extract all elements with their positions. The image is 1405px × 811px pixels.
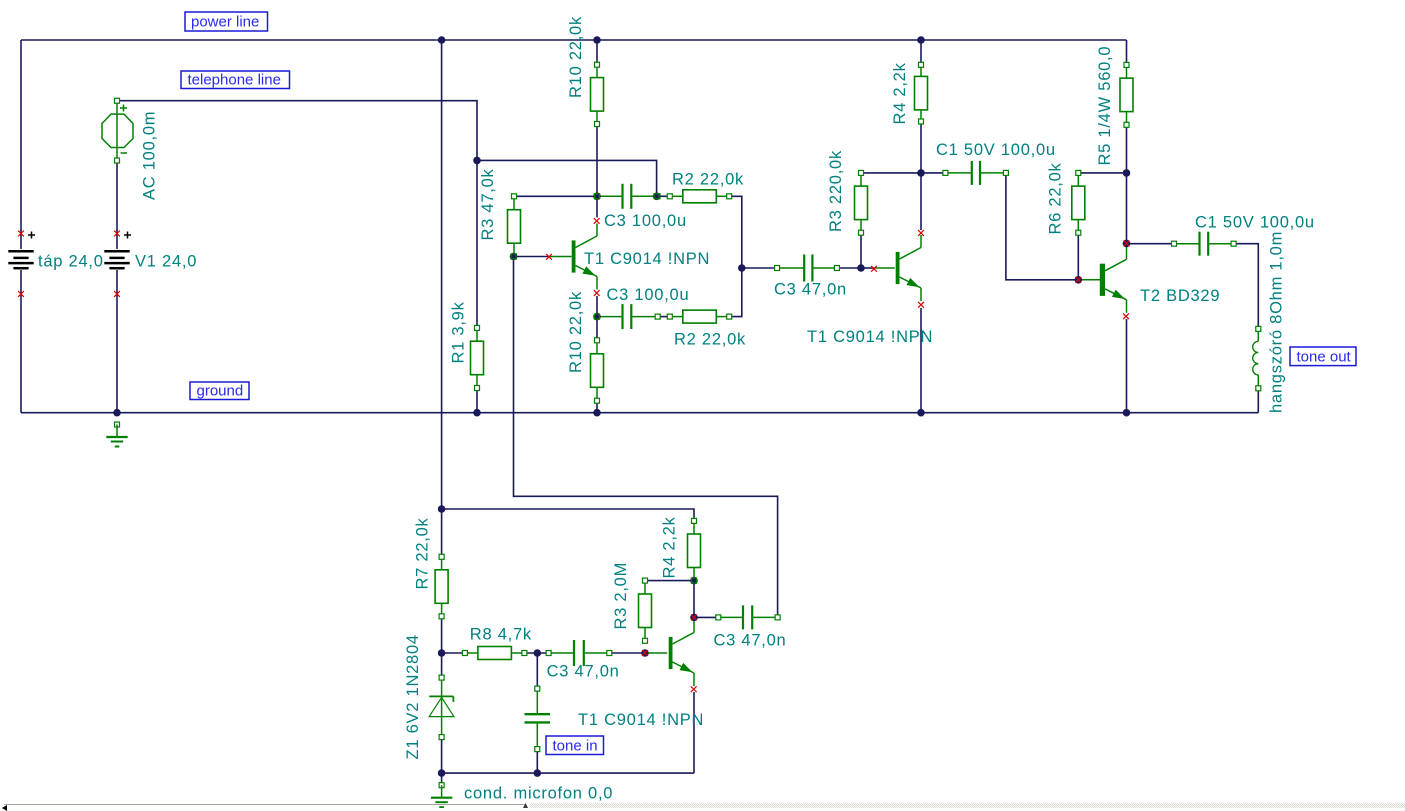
wire collector node to feedback C3 [694, 616, 718, 618]
resistor R1 3,9k [471, 325, 484, 390]
svg-text:power line: power line [191, 13, 259, 30]
svg-text:C1 50V 100,0u: C1 50V 100,0u [1195, 214, 1315, 232]
ground symbol (main) [106, 422, 127, 447]
svg-text:R2 22,0k: R2 22,0k [672, 171, 744, 189]
wire R6 top to R5 rail [1078, 172, 1126, 174]
svg-text:R10 22,0k: R10 22,0k [567, 16, 585, 98]
wire C1 to T2 base [1006, 173, 1078, 280]
zener diode Z1 6V2 1N2804 [429, 675, 454, 740]
wire R4 top pin to power line [920, 40, 922, 65]
wire R10 bottom to node [596, 124, 598, 196]
wire R3 to C3 node [514, 195, 597, 197]
wire T1 emitter to ground [920, 308, 922, 413]
wire mic top [536, 653, 538, 689]
junction [438, 36, 446, 44]
junction [641, 649, 649, 657]
wire bottom T1 emitter down [693, 692, 695, 773]
svg-text:tone in: tone in [553, 737, 598, 754]
transistor T1 C9014 input stage [669, 620, 694, 686]
svg-text:T1 C9014 !NPN: T1 C9014 !NPN [807, 328, 933, 346]
junction [690, 614, 698, 622]
capacitor C3 47,0n input [546, 640, 612, 666]
svg-text:R2 22,0k: R2 22,0k [674, 331, 746, 349]
wire R3 220k to base node [860, 233, 862, 268]
wire node to zener [441, 653, 443, 678]
pin marker x [691, 615, 697, 621]
wire R7 to mic node [441, 616, 443, 653]
svg-text:telephone line: telephone line [188, 71, 281, 88]
svg-text:R7 22,0k: R7 22,0k [414, 517, 432, 589]
pin marker x [1123, 313, 1129, 319]
pin marker x [642, 650, 648, 656]
wire R10 top pin to power line [596, 40, 598, 65]
junction [1123, 409, 1131, 417]
pin marker x [1124, 241, 1130, 247]
capacitor C3 47,0n coupling [775, 255, 840, 282]
pin square [595, 314, 600, 319]
net label power line [185, 12, 268, 31]
wire speaker to ground [1257, 391, 1259, 413]
pin marker x [546, 254, 552, 260]
wire power line rail [21, 39, 1127, 41]
wire C3 input to base node [609, 652, 645, 654]
speaker hangszoro (inductor) [1253, 326, 1261, 390]
junction [473, 157, 481, 165]
wire node to C1 coupling [921, 172, 945, 174]
wire T1 collector stub 2 [920, 173, 922, 230]
junction [917, 169, 925, 177]
wire input T1 base green [645, 652, 667, 654]
resistor R4 2,2k bottom [688, 518, 701, 583]
junction [738, 264, 746, 272]
transistor T1 C9014 stage1 [572, 224, 597, 290]
svg-text:T1 C9014 !NPN: T1 C9014 !NPN [578, 711, 704, 729]
pin marker x [1075, 277, 1081, 283]
wire C3/R2 link [657, 195, 670, 197]
wire C3/R2 lower link [658, 316, 670, 318]
capacitor C3 47,0n feedback [716, 605, 780, 629]
svg-text:C1 50V 100,0u: C1 50V 100,0u [936, 141, 1056, 159]
resistor R3 47,0k [508, 194, 521, 259]
pin marker x [594, 290, 600, 296]
wire AC source to battery V1 [116, 161, 118, 413]
svg-text:C3 100,0u: C3 100,0u [604, 212, 687, 230]
pin marker x [18, 291, 24, 297]
capacitor C1 50V 100,0u output [1172, 232, 1237, 256]
svg-text:T1 C9014 !NPN: T1 C9014 !NPN [584, 250, 710, 268]
wire R6 bottom to base node [1077, 233, 1079, 280]
pin marker x [691, 686, 697, 692]
transistor T1 C9014 stage2 [896, 235, 921, 301]
junction [593, 36, 601, 44]
wire node A to bottom R4 [442, 509, 694, 521]
svg-text:R4 2,2k: R4 2,2k [891, 62, 909, 124]
svg-text:AC 100,0m: AC 100,0m [141, 111, 159, 200]
svg-text:R5 1/4W 560,0: R5 1/4W 560,0 [1096, 46, 1114, 166]
pin marker x [594, 218, 600, 224]
wire R5 bottom to collector node [1126, 125, 1128, 244]
junction [857, 264, 865, 272]
wire R5 top pin to power line [1126, 40, 1128, 65]
svg-text:C3 47,0n: C3 47,0n [547, 663, 620, 681]
svg-text:R3 220,0k: R3 220,0k [827, 150, 845, 232]
pin marker x [18, 231, 24, 237]
wire zener to bottom rail [441, 737, 443, 783]
resistor R8 4,7k [462, 647, 527, 660]
junction [1075, 276, 1083, 284]
wire T2 base [1078, 279, 1100, 281]
resistor R3 220,0k [855, 170, 868, 235]
resistor R10 22,0k top [591, 62, 604, 126]
svg-text:R4 2,2k: R4 2,2k [661, 516, 679, 578]
pin square [511, 254, 516, 259]
scrollbar thumb top edge [4, 804, 526, 805]
junction [534, 649, 542, 657]
svg-text:C3 47,0n: C3 47,0n [714, 632, 787, 650]
pin marker x [918, 302, 924, 308]
svg-text:tone out: tone out [1297, 348, 1352, 365]
svg-text:V1 24,0: V1 24,0 [135, 253, 197, 271]
capacitor C3 100,0u top [595, 184, 661, 209]
junction [653, 193, 661, 201]
scrollbar thumb end [523, 803, 528, 808]
wire R10 lower links [596, 317, 598, 413]
junction [593, 193, 601, 201]
junction [1123, 169, 1131, 177]
junction [438, 649, 446, 657]
net label ground [190, 382, 249, 400]
resistor R4 2,2k top [915, 62, 928, 124]
wire T1 stage2 base green [874, 267, 895, 269]
resistor R7 22,0k [435, 554, 448, 619]
svg-text:R8 4,7k: R8 4,7k [470, 626, 532, 644]
battery V1 24,0 [104, 232, 131, 269]
junction [510, 253, 518, 261]
net label telephone line [181, 71, 290, 89]
wire R3 220k top to collector rail [861, 172, 921, 174]
wire ground rail [21, 412, 1258, 414]
wire lower R2 to corner [729, 268, 742, 317]
wire R3 node down to bottom amp [514, 257, 778, 618]
wire node A to R7 [441, 509, 443, 557]
scrollbar track dither [530, 803, 1405, 808]
wire output C1 to speaker [1234, 244, 1259, 329]
svg-text:cond. microfon 0,0: cond. microfon 0,0 [464, 785, 613, 803]
junction [593, 409, 601, 417]
pin square [654, 194, 659, 199]
capacitor C3 100,0u bottom [595, 304, 661, 329]
transistor T2 BD329 [1100, 247, 1127, 313]
svg-text:R3 47,0k: R3 47,0k [479, 168, 497, 240]
junction [113, 409, 121, 417]
pin marker x [871, 266, 877, 272]
wire bottom ground rail [442, 772, 694, 774]
wire R4 bottom to node [920, 122, 922, 173]
condenser microphone [525, 686, 551, 752]
svg-text:Z1 6V2 1N2804: Z1 6V2 1N2804 [404, 634, 422, 759]
junction [534, 769, 542, 777]
svg-text:C3 100,0u: C3 100,0u [607, 286, 690, 304]
wire telephone node through R1 [476, 160, 478, 412]
resistor R2 22,0k bottom [667, 310, 731, 323]
resistor R10 22,0k bottom [591, 338, 604, 403]
resistor R2 22,0k top [667, 190, 731, 203]
wire mic node to R8 [442, 652, 465, 654]
resistor R6 22,0k [1072, 170, 1085, 235]
wire R2 to feedback corner [729, 196, 742, 268]
junction [438, 505, 446, 513]
AC source V (telephone signal) [102, 98, 133, 163]
svg-text:R1 3,9k: R1 3,9k [450, 301, 468, 363]
junction [917, 409, 925, 417]
svg-text:T2 BD329: T2 BD329 [1140, 287, 1220, 305]
wire T2 emitter to ground [1126, 319, 1128, 413]
wire telephone line [117, 101, 477, 161]
svg-text:ground: ground [197, 382, 244, 399]
scrollbar left arrow [2, 805, 7, 811]
wire R4 node to collector node [693, 581, 695, 618]
wire telephone node to C3 top-right [477, 160, 657, 196]
wire node to C3 coupling [742, 267, 777, 269]
wire T1 base from R3 node [514, 256, 550, 258]
wire left vertical (power line to ground) [20, 40, 22, 413]
wire T1 emitter stub [596, 296, 598, 317]
wire C3 coupling to T1 base node [837, 267, 861, 269]
junction [593, 313, 601, 321]
pin marker x [918, 230, 924, 236]
junction [473, 409, 481, 417]
svg-text:R6 22,0k: R6 22,0k [1047, 162, 1065, 234]
wire T1 stage1 base green [549, 256, 572, 258]
net label tone out [1290, 347, 1356, 366]
pin marker x [114, 291, 120, 297]
svg-text:hangszóró 8Ohm 1,0m: hangszóró 8Ohm 1,0m [1268, 231, 1286, 413]
junction [690, 577, 698, 585]
wire collector node to output C1 [1127, 243, 1175, 245]
pin marker x [114, 231, 120, 237]
pin square [595, 194, 600, 199]
resistor R3 2,0M [639, 578, 652, 643]
pin square [692, 578, 697, 583]
battery tap 24,0 [8, 232, 35, 269]
wire power-line drop at x=441 [441, 40, 443, 509]
svg-text:R10 22,0k: R10 22,0k [567, 291, 585, 373]
wire T1 collector stub [596, 196, 598, 217]
wire R3 2,0M to R4 node [645, 580, 694, 582]
ground symbol (microphone) [431, 783, 452, 808]
svg-text:táp 24,0: táp 24,0 [38, 253, 104, 271]
junction [1123, 240, 1131, 248]
wire R8 to C3 input [524, 652, 548, 654]
junction [917, 36, 925, 44]
resistor R5 1/4W 560,0 [1120, 62, 1133, 127]
svg-text:R3 2,0M: R3 2,0M [612, 562, 630, 630]
svg-text:C3 47,0n: C3 47,0n [774, 281, 847, 299]
junction [438, 769, 446, 777]
net label tone in [546, 736, 604, 755]
wire mic bottom [536, 749, 538, 773]
capacitor C1 50V 100,0u mid [943, 161, 1009, 185]
wire T1 base stub [861, 267, 874, 269]
